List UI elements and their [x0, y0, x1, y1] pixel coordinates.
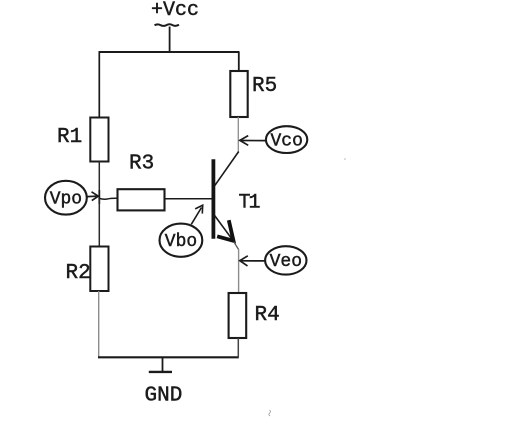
- scan speck: [269, 410, 271, 416]
- resistor R3: [118, 189, 165, 210]
- wire collector vertical: [237, 117, 239, 153]
- wire collector diagonal: [215, 152, 239, 186]
- resistor R4: [229, 293, 247, 338]
- wire bottom rail: [98, 356, 239, 358]
- svg-text:R2: R2: [66, 262, 91, 285]
- svg-text:R5: R5: [252, 75, 277, 98]
- resistor R1: [90, 118, 108, 162]
- supply squiggle symbol: [155, 24, 180, 26]
- svg-text:+Vcc: +Vcc: [151, 0, 199, 22]
- svg-text:T1: T1: [239, 192, 261, 215]
- svg-text:Veo: Veo: [270, 252, 302, 272]
- ground stem: [162, 357, 164, 371]
- emitter arrowhead of T1 (bold hand-drawn): [219, 222, 234, 241]
- svg-text:R1: R1: [57, 126, 82, 149]
- resistor R5: [230, 71, 247, 117]
- Vco arrow: [242, 140, 266, 142]
- svg-text:R4: R4: [255, 304, 280, 327]
- probe oval Vbo: [160, 224, 203, 257]
- wire node to R2: [98, 199, 100, 247]
- wire R4 to bottom rail: [237, 338, 239, 358]
- wire R1 to node: [98, 162, 100, 200]
- wire emitter diagonal: [215, 216, 234, 242]
- probe oval Vco: [266, 126, 307, 153]
- probe oval Veo: [265, 246, 306, 274]
- transistor T1 base bar: [211, 159, 215, 238]
- node A (Vpo junction): [98, 190, 100, 204]
- wire rail to R5: [238, 52, 240, 72]
- Vbo arrow: [191, 208, 201, 225]
- Veo arrow: [242, 260, 266, 262]
- svg-text:Vbo: Vbo: [165, 232, 197, 252]
- wire Vcc feed: [169, 27, 171, 53]
- wire left vertical upper: [98, 52, 100, 118]
- wire emitter bend: [234, 242, 239, 250]
- Vpo arrow: [87, 195, 97, 197]
- svg-text:Vco: Vco: [271, 131, 303, 151]
- wire top rail: [99, 51, 240, 53]
- wire base left segment: [99, 197, 126, 200]
- ground bar: [149, 371, 172, 373]
- wire emitter vertical: [238, 249, 240, 294]
- probe oval Vpo: [45, 181, 87, 215]
- svg-text:R3: R3: [129, 152, 154, 175]
- resistor R2: [90, 247, 108, 292]
- svg-text:GND: GND: [145, 385, 183, 408]
- wire base right segment: [165, 198, 213, 200]
- svg-text:Vpo: Vpo: [50, 190, 82, 210]
- wire R2 to bottom rail: [98, 291, 100, 358]
